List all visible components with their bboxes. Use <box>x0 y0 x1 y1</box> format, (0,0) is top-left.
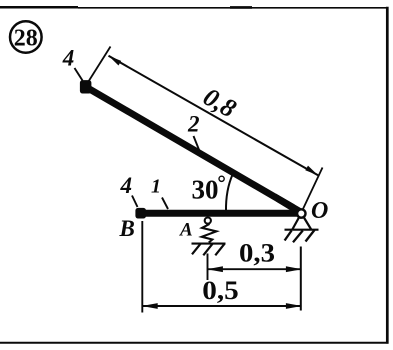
svg-text:4: 4 <box>120 173 133 198</box>
svg-text:2: 2 <box>187 112 200 137</box>
svg-text:30: 30 <box>192 175 219 205</box>
svg-text:0,3: 0,3 <box>239 239 275 268</box>
svg-text:28: 28 <box>14 26 38 52</box>
svg-text:0,5: 0,5 <box>202 276 239 305</box>
svg-text:O: O <box>311 198 328 224</box>
svg-text:1: 1 <box>151 176 161 198</box>
svg-text:B: B <box>119 216 135 241</box>
svg-text:A: A <box>179 220 193 241</box>
svg-text:4: 4 <box>62 46 75 71</box>
